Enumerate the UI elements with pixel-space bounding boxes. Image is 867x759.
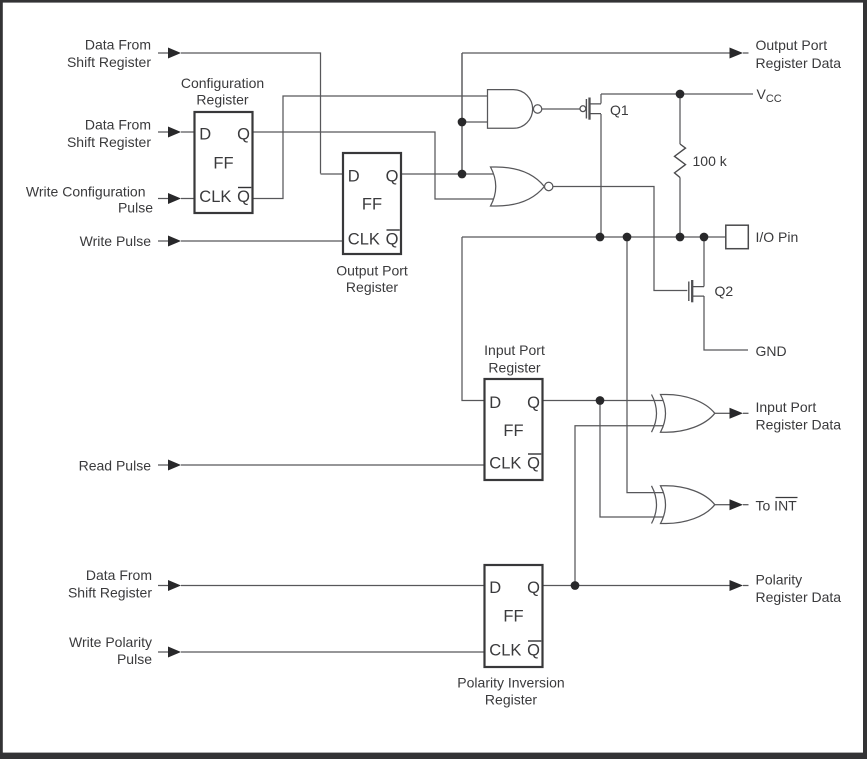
svg-text:Register: Register [196,92,248,108]
svg-text:CLK: CLK [348,231,380,249]
svg-text:FF: FF [503,608,523,626]
node Input FF Q [596,396,605,405]
node Vcc/resistor [676,90,685,99]
wire: Vcc rail [601,93,753,95]
wire: Write Configuration Pulse to Config FF CLK [158,198,195,200]
wire: NOR output to Q2 gate [553,187,687,291]
svg-text:Input Port: Input Port [756,399,817,415]
svg-text:Q: Q [527,579,540,597]
svg-text:Register Data: Register Data [756,55,842,71]
arrow input write-pulse [168,236,181,247]
svg-text:Q: Q [386,231,399,249]
wire: Q1 drain down to I/O node [600,114,602,237]
wire: Config FF Q to NOR bottom input [253,132,497,199]
node I/O rail Q2 [700,233,709,242]
node I/O rail to XOR2 [623,233,632,242]
svg-text:I/O Pin: I/O Pin [756,229,799,245]
svg-text:CLK: CLK [489,642,521,660]
flip-flop Output Port Register [336,153,408,295]
arrow input write-polarity-pulse [168,647,181,658]
svg-text:Write Pulse: Write Pulse [80,233,152,249]
wire: I/O node down to XOR2 top input [627,237,668,493]
wire: Write Polarity Pulse to Polarity FF CLK [158,651,485,653]
svg-text:Register: Register [488,360,540,376]
arrow input read-pulse [168,460,181,471]
transistor Q2 (NMOS) [689,280,734,302]
svg-text:Register Data: Register Data [756,417,842,433]
wire: I/O pin rail [462,236,726,238]
svg-text:Read Pulse: Read Pulse [79,458,152,474]
svg-text:Polarity: Polarity [756,572,803,588]
svg-text:Input Port: Input Port [484,342,545,358]
svg-text:Data From: Data From [85,117,151,133]
svg-text:FF: FF [213,155,233,173]
arrow polarity register data [730,580,744,591]
arrow input port register data [730,408,744,419]
svg-text:Register Data: Register Data [756,589,842,605]
svg-text:Q: Q [527,642,540,660]
wire: resistor leads [679,94,681,237]
arrow input write-configuration-pulse [168,193,181,204]
transistor Q1 (PMOS) [580,98,629,120]
wire: Polarity FF Q node up to XOR1 bottom input [575,426,668,586]
svg-text:Shift Register: Shift Register [68,585,152,601]
wire: Read Pulse to Input FF CLK [158,464,485,466]
svg-text:Register: Register [346,279,398,295]
svg-text:To INT: To INT [756,498,798,514]
wire: Q1 source to Vcc [600,94,602,104]
svg-text:CLK: CLK [489,455,521,473]
NAND gate [488,90,542,129]
svg-text:D: D [348,167,360,185]
wire: Config FF Qbar up to NAND top input [253,96,489,199]
svg-text:Polarity Inversion: Polarity Inversion [457,675,564,691]
flip-flop Input Port Register [484,342,545,480]
arrow to INT [730,499,744,510]
wire: Output FF Q to NOR top input and up to output arrow [401,53,730,174]
wire: Q2 source to GND [704,296,748,350]
XOR gate 2 (to INT) [652,486,715,524]
wire: Write Pulse to Output Port FF CLK [158,240,343,242]
wire: I/O node down to Input FF D [462,237,485,401]
svg-text:Q: Q [527,394,540,412]
svg-text:Q: Q [237,125,250,143]
flip-flop Configuration Register [181,75,264,213]
svg-text:Register: Register [485,692,537,708]
svg-text:GND: GND [756,343,787,359]
wire: NAND output to Q1 gate [542,108,581,110]
node I/O rail resistor [676,233,685,242]
I/O Pin box [726,225,798,249]
svg-text:Pulse: Pulse [117,651,152,667]
svg-text:Q: Q [237,188,250,206]
wire: Q2 drain up to I/O rail [703,237,705,287]
svg-text:Data From: Data From [86,567,152,583]
svg-text:D: D [489,579,501,597]
junction dots [458,90,709,590]
svg-text:D: D [199,125,211,143]
arrow input data-from-shift-register (top) [168,48,181,59]
svg-text:CLK: CLK [199,188,231,206]
svg-text:Output Port: Output Port [756,37,828,53]
arrow output port register data [730,48,744,59]
XOR gate 1 (input port data) [652,395,715,433]
NOR gate [491,167,553,206]
svg-text:Pulse: Pulse [118,200,153,216]
wire: Input FF Q node down to XOR2 bottom input [600,401,668,518]
flip-flop Polarity Inversion Register [457,565,564,708]
wire: XOR1 output to arrow [715,412,730,414]
node Polarity FF Q [571,581,580,590]
svg-text:Q1: Q1 [610,102,629,118]
wire: top Data From Shift Register to Output Port FF D [158,53,343,174]
svg-text:Write Configuration: Write Configuration [26,183,146,199]
svg-text:Data From: Data From [85,37,151,53]
wire: Input FF Q to XOR1 top input [543,400,669,402]
wire: NAND bottom input from node [462,53,488,174]
wire: XOR2 output to arrow [715,504,730,506]
svg-text:FF: FF [362,196,382,214]
arrow input data-from-shift-register (config) [168,127,181,138]
svg-text:Shift Register: Shift Register [67,134,151,150]
svg-text:Output Port: Output Port [336,263,408,279]
svg-text:Q: Q [386,167,399,185]
wire: Polarity FF Q to output arrow [543,585,730,587]
svg-text:Write Polarity: Write Polarity [69,634,152,650]
svg-text:Configuration: Configuration [181,75,264,91]
node NAND input junction [458,118,467,127]
svg-text:Q2: Q2 [715,283,734,299]
wire: Data From Shift Register to Polarity FF D [158,585,485,587]
svg-text:D: D [489,394,501,412]
svg-text:Shift Register: Shift Register [67,54,151,70]
node NOR input junction [458,170,467,179]
node I/O rail Q1 [596,233,605,242]
arrow input data-from-shift-register (polarity) [168,580,181,591]
svg-text:100 k: 100 k [693,153,728,169]
wire: Data From Shift Register to Config FF D [158,131,195,133]
svg-text:FF: FF [503,422,523,440]
resistor 100 k [675,144,728,178]
svg-text:Q: Q [527,455,540,473]
